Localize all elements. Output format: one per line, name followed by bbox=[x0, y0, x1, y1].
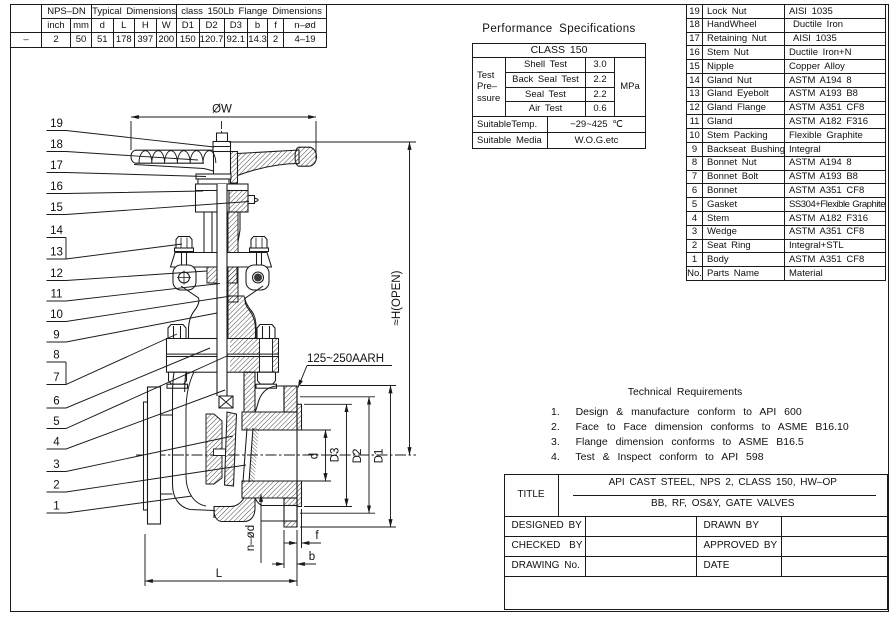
svg-text:11: 11 bbox=[51, 289, 63, 301]
svg-text:10: 10 bbox=[50, 309, 63, 321]
gasket 5 bbox=[167, 354, 279, 356]
handwheel hub (left exterior) bbox=[214, 141, 231, 183]
svg-text:6: 6 bbox=[53, 396, 59, 408]
bonnet flange 6 bbox=[167, 339, 279, 355]
svg-text:8: 8 bbox=[53, 350, 59, 362]
gland 11 bbox=[207, 267, 237, 283]
handwheel right section: hub wall bbox=[231, 152, 238, 184]
dimension L bbox=[145, 534, 297, 586]
right flange (sectioned) bbox=[284, 386, 297, 527]
svg-text:≈H(OPEN): ≈H(OPEN) bbox=[391, 270, 403, 325]
handwheel right rim section bbox=[295, 147, 317, 166]
svg-text:f: f bbox=[315, 530, 319, 542]
svg-text:D3: D3 bbox=[330, 448, 342, 463]
right hub lower outline bbox=[255, 498, 284, 506]
handwheel left rim profile bbox=[131, 150, 227, 176]
dimension D2 bbox=[300, 397, 375, 513]
left flange plate bbox=[148, 387, 161, 524]
svg-text:9: 9 bbox=[53, 330, 59, 342]
body left seat wall (broken-out section) bbox=[206, 414, 222, 484]
dimension D3 bbox=[304, 404, 352, 506]
body flange bbox=[167, 357, 279, 373]
svg-text:D1: D1 bbox=[374, 449, 386, 464]
pipe axis centerline bbox=[136, 454, 416, 456]
svg-text:2: 2 bbox=[53, 480, 59, 492]
stem top centerline stub bbox=[221, 121, 223, 134]
bonnet nut 8 (below flange) bbox=[167, 372, 277, 388]
svg-text:19: 19 bbox=[50, 118, 63, 130]
svg-text:16: 16 bbox=[50, 181, 63, 193]
svg-text:1: 1 bbox=[53, 501, 59, 513]
title block bbox=[504, 474, 889, 610]
svg-text:14: 14 bbox=[50, 225, 63, 237]
yoke neck bbox=[204, 212, 240, 252]
right hub pocket outline bbox=[255, 386, 284, 412]
lock nut 19 bbox=[213, 133, 231, 152]
bonnet bolt hex heads bbox=[168, 325, 275, 339]
stem 4 (drawn over) bbox=[217, 184, 227, 396]
body bottom shell bbox=[214, 498, 255, 522]
dimension b bbox=[272, 530, 316, 568]
technical requirements bbox=[560, 386, 810, 398]
dimension n-od bolt hole leader bbox=[261, 494, 284, 563]
right pipe bottom wall bbox=[242, 481, 297, 498]
svg-text:L: L bbox=[216, 568, 223, 580]
dimension table top-left bbox=[10, 4, 327, 48]
gland nut (right) bbox=[250, 237, 269, 252]
yoke lug right with eyebolt pivot bbox=[246, 265, 269, 290]
gland eyebolt 13 shanks bbox=[182, 252, 262, 267]
right pipe top wall bbox=[242, 412, 297, 430]
wedge tee notch bbox=[214, 449, 226, 456]
svg-text:15: 15 bbox=[50, 202, 63, 214]
dimension d bbox=[299, 430, 331, 481]
bonnet bell profile left bbox=[181, 286, 199, 339]
body interior cavity line bbox=[186, 372, 206, 506]
svg-text:b: b bbox=[309, 551, 315, 563]
svg-text:3: 3 bbox=[53, 459, 59, 471]
svg-text:n–ød: n–ød bbox=[245, 525, 257, 551]
performance specifications table bbox=[472, 43, 646, 117]
performance specifications title bbox=[459, 23, 659, 35]
body left exterior profile bbox=[161, 372, 216, 510]
callout numbers and leaders bbox=[47, 118, 250, 513]
svg-text:7: 7 bbox=[53, 372, 59, 384]
nipple 15 bbox=[248, 196, 259, 204]
handwheel right section: spoke bbox=[238, 150, 300, 176]
svg-text:5: 5 bbox=[53, 416, 59, 428]
gland flange 12 bbox=[171, 253, 272, 268]
svg-text:125~250AARH: 125~250AARH bbox=[307, 353, 384, 365]
svg-text:12: 12 bbox=[50, 268, 63, 280]
bonnet lower neck hatch bbox=[228, 296, 256, 354]
svg-text:D2: D2 bbox=[352, 449, 364, 464]
right flange raised face bbox=[297, 404, 302, 430]
stem nut 16 / yoke head block bbox=[196, 184, 249, 212]
body bottom left step bbox=[213, 511, 215, 519]
packing hatch band (bonnet neck right of stem) bbox=[228, 212, 238, 302]
svg-text:13: 13 bbox=[50, 247, 63, 259]
svg-text:18: 18 bbox=[50, 139, 63, 151]
gland nut 14 (left) bbox=[175, 237, 194, 252]
parts list table bbox=[686, 4, 886, 281]
bonnet bell profile right bbox=[245, 286, 263, 339]
dimension H(OPEN) bbox=[229, 142, 416, 455]
svg-text:4: 4 bbox=[53, 437, 60, 449]
seat ring 2 bbox=[243, 428, 259, 482]
yoke lug left with eyebolt pivot bbox=[173, 265, 196, 290]
dimension D1 bbox=[300, 386, 396, 528]
bore lines bbox=[252, 430, 297, 481]
svg-text:17: 17 bbox=[50, 160, 63, 172]
svg-text:ØW: ØW bbox=[212, 104, 232, 116]
body right wall (sectioned band) bbox=[244, 372, 255, 412]
right flange face line bbox=[296, 386, 298, 528]
wedge 3 bbox=[225, 412, 237, 486]
dimension OW bbox=[131, 117, 316, 159]
bonnet bolt 7 channel (sectioned side) bbox=[260, 339, 273, 373]
left flange raised face bbox=[144, 402, 148, 510]
dimension f bbox=[284, 509, 321, 568]
svg-text:d: d bbox=[309, 453, 321, 459]
wedge stem connector with cross brace bbox=[219, 396, 233, 408]
retaining nut 17 plates bbox=[196, 174, 231, 184]
